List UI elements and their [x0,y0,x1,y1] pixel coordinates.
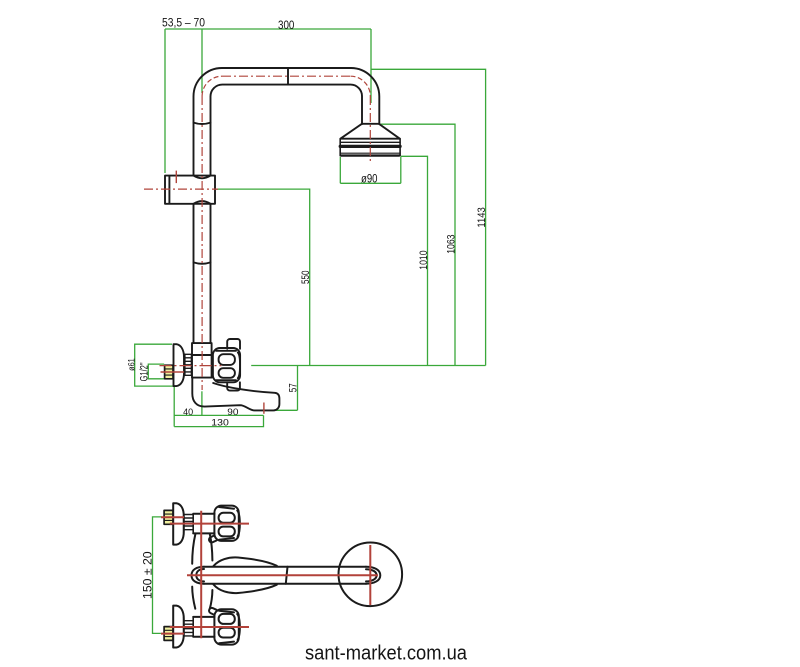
head rim lines [340,141,400,143]
spout (elevation) [192,378,279,411]
dim line 40/90 [174,414,263,416]
top valve: nut [164,510,173,524]
svg-text:1010: 1010 [418,251,430,270]
head lower lines [340,153,400,155]
svg-text:300: 300 [278,18,295,32]
riser + top pipe inner outline [210,85,362,343]
pipe joint riser lower [194,262,211,263]
riser + top pipe outer outline [194,68,380,343]
shower head cone [340,124,399,139]
top valve: lever tab [209,535,216,542]
svg-text:40: 40 [183,407,193,418]
extension line head center (300) [370,29,372,103]
head dark band [340,145,400,148]
svg-text:ø61: ø61 [127,358,138,371]
top valve: knob [214,506,238,541]
top valve main centerline [170,523,249,525]
dim 1063 hook top [380,124,455,365]
bottom valve nut centerline [161,633,184,635]
pipe cap at head center [366,567,380,584]
bottom valve: lever tab [209,608,216,615]
head circle vertical centerline [369,545,371,605]
svg-text:90: 90 [227,407,238,418]
knob bottom tab [227,382,240,390]
top valve: arm cylinder [193,514,214,534]
head circle (plan) [339,543,403,607]
wall flange (elevation, D-shape) [174,344,185,386]
nut centerline (eccentric, elevation) [161,371,185,373]
spout end cap (plan) [192,567,205,584]
dim G1/2 box [148,364,164,379]
svg-text:ø90: ø90 [361,171,378,185]
dim 1143 hook top [371,69,486,365]
svg-text:1063: 1063 [446,235,458,254]
svg-text:150 ± 20: 150 ± 20 [143,551,155,599]
svg-text:53,5 – 70: 53,5 – 70 [162,16,205,30]
dim o61 box [135,344,175,386]
top valve: flange (D-shape, flat left) [173,503,184,544]
tick at riser center for 40/90 [201,391,203,415]
coupling under riser [192,343,212,355]
bracket horizontal centerline [144,188,218,190]
bottom valve: nut [164,627,173,641]
svg-text:57: 57 [287,383,299,392]
bottom valve: knob [214,609,238,644]
bottom valve main centerline [170,626,249,628]
extension line riser center [201,29,203,93]
riser centerline [201,96,203,390]
top valve: thread ridges [184,515,194,530]
bracket pipe cross-section sags [194,176,211,204]
dim line 53,5-70 / 300 top horizontal [165,28,371,30]
arm pipe joint [286,567,288,584]
valve horizontal centerline (elevation) [160,365,222,367]
central body (plan) [192,534,195,609]
bottom valve: flange (D-shape, flat left) [173,606,184,648]
central vertical centerline [200,511,202,639]
spout tick at 130 [263,403,265,414]
svg-text:sant-market.com.ua: sant-market.com.ua [305,643,468,665]
bottom valve: arm cylinder [193,617,214,637]
dim line 130 + right connector [174,415,263,426]
base dimension line at valve center level [251,365,485,367]
wall bracket [165,176,215,204]
valve body (elevation) [192,355,212,378]
dim o90 verticals + line [340,157,401,183]
dim 550: hook at bracket, vertical, ends at base line [216,189,310,365]
top valve nut centerline [161,516,184,518]
bracket hole tick [175,171,177,184]
pipe joint riser upper [194,123,211,124]
pipe joint on top pipe [287,68,289,84]
top pipe centerline [222,75,351,77]
spout blade (plan) [214,557,277,566]
extension line wall (left) [164,29,166,173]
hex nut (elevation) [165,365,173,379]
svg-text:1143: 1143 [476,207,488,227]
bottom valve: thread ridges [184,621,194,636]
right bend centerline [351,76,371,96]
dim 57 vertical + bottom hook [276,366,298,411]
dim 150±20 vertical with hooks (plan view) [153,517,162,634]
spout/arm centerline [187,574,378,576]
thread ridges left of body [185,354,192,375]
knob (elevation) [227,339,240,349]
svg-text:550: 550 [300,271,312,285]
left bend centerline [202,76,222,96]
dim 1010 hook top [401,156,428,365]
svg-text:130: 130 [211,418,229,429]
arm pipe to head (plan) [204,567,366,584]
head down-pipe centerline [369,96,371,161]
extension from o61 box corner down to 130 dim [173,386,175,427]
svg-text:G1/2": G1/2" [138,362,150,381]
